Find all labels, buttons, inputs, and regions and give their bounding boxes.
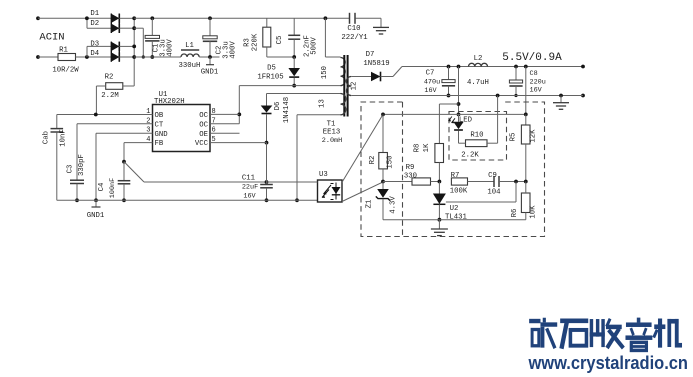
svg-text:GND: GND — [155, 131, 169, 139]
svg-text:10R/2W: 10R/2W — [52, 67, 79, 75]
svg-text:D4: D4 — [90, 50, 99, 58]
svg-text:330uH: 330uH — [179, 62, 201, 70]
svg-text:D2: D2 — [90, 20, 99, 28]
svg-text:330: 330 — [404, 172, 417, 180]
svg-text:ACIN: ACIN — [39, 32, 64, 44]
svg-text:150: 150 — [321, 66, 329, 79]
svg-text:16V: 16V — [424, 87, 437, 95]
svg-text:470u: 470u — [424, 79, 440, 87]
svg-text:100K: 100K — [450, 188, 468, 196]
svg-text:TL431: TL431 — [445, 214, 468, 222]
svg-text:2.2K: 2.2K — [461, 152, 479, 160]
svg-text:12: 12 — [351, 82, 359, 91]
svg-text:4.7uH: 4.7uH — [467, 79, 489, 87]
svg-text:R6: R6 — [511, 209, 519, 218]
svg-text:C4: C4 — [98, 182, 106, 191]
svg-text:2.2M: 2.2M — [101, 92, 119, 100]
svg-text:OB: OB — [155, 112, 164, 120]
svg-text:220u: 220u — [530, 78, 546, 86]
svg-text:R3: R3 — [244, 38, 252, 47]
svg-text:220K: 220K — [252, 33, 260, 51]
svg-text:1N4148: 1N4148 — [283, 97, 291, 123]
svg-text:1FR105: 1FR105 — [257, 74, 283, 82]
svg-text:500V: 500V — [311, 37, 319, 55]
svg-text:D6: D6 — [274, 102, 282, 111]
svg-text:www.crystalradio.cn: www.crystalradio.cn — [528, 352, 688, 373]
svg-text:R10: R10 — [470, 131, 483, 139]
svg-text:T1: T1 — [327, 121, 336, 129]
svg-text:Z1: Z1 — [366, 199, 374, 208]
svg-text:22uF: 22uF — [242, 184, 258, 192]
svg-text:U2: U2 — [450, 205, 459, 213]
svg-text:EE13: EE13 — [323, 129, 341, 137]
svg-text:OC: OC — [199, 112, 208, 120]
svg-text:D7: D7 — [366, 51, 375, 59]
svg-text:R8: R8 — [414, 144, 422, 153]
svg-text:C5: C5 — [276, 36, 284, 45]
svg-text:C10: C10 — [347, 25, 360, 33]
svg-text:150: 150 — [387, 155, 395, 168]
svg-text:VCC: VCC — [195, 140, 209, 148]
svg-text:C11: C11 — [242, 175, 256, 183]
svg-text:2.0mH: 2.0mH — [322, 137, 342, 145]
svg-text:D3: D3 — [90, 41, 99, 49]
svg-text:C9: C9 — [488, 172, 497, 180]
svg-text:16V: 16V — [243, 193, 256, 201]
svg-text:1K: 1K — [423, 143, 431, 152]
svg-text:GND1: GND1 — [201, 69, 219, 77]
svg-text:L1: L1 — [185, 42, 194, 50]
svg-text:OC: OC — [199, 121, 208, 129]
svg-text:CT: CT — [155, 121, 164, 129]
svg-text:R5: R5 — [510, 133, 518, 142]
svg-text:R9: R9 — [406, 164, 415, 172]
svg-text:D5: D5 — [267, 65, 276, 73]
svg-text:104: 104 — [487, 189, 501, 197]
svg-text:R1: R1 — [59, 47, 68, 55]
svg-text:FB: FB — [155, 140, 164, 148]
svg-text:C3: C3 — [67, 165, 75, 174]
svg-text:10nF: 10nF — [60, 129, 68, 147]
svg-text:13: 13 — [319, 99, 327, 108]
svg-text:10K: 10K — [530, 205, 538, 219]
svg-text:C8: C8 — [530, 70, 538, 78]
svg-text:400V: 400V — [230, 41, 238, 59]
svg-text:1N5819: 1N5819 — [363, 60, 389, 68]
svg-text:OE: OE — [199, 131, 208, 139]
svg-text:R2: R2 — [105, 73, 114, 81]
svg-text:330pF: 330pF — [78, 154, 86, 176]
svg-text:Cab: Cab — [43, 131, 51, 144]
svg-text:4.3V: 4.3V — [390, 196, 398, 214]
svg-text:222/Y1: 222/Y1 — [341, 34, 368, 42]
svg-text:12K: 12K — [530, 129, 538, 143]
svg-text:R7: R7 — [451, 172, 460, 180]
svg-text:LED: LED — [459, 117, 473, 125]
svg-text:D1: D1 — [90, 10, 99, 18]
svg-text:R2: R2 — [369, 156, 377, 165]
svg-text:100nF: 100nF — [109, 178, 117, 198]
svg-text:5.5V/0.9A: 5.5V/0.9A — [502, 52, 562, 64]
svg-text:THX202H: THX202H — [154, 98, 185, 106]
svg-text:C7: C7 — [426, 70, 435, 78]
svg-text:400V: 400V — [167, 39, 175, 57]
svg-text:GND1: GND1 — [87, 212, 105, 220]
svg-text:U3: U3 — [319, 171, 328, 179]
svg-text:L2: L2 — [474, 55, 483, 63]
svg-text:16V: 16V — [530, 86, 543, 94]
